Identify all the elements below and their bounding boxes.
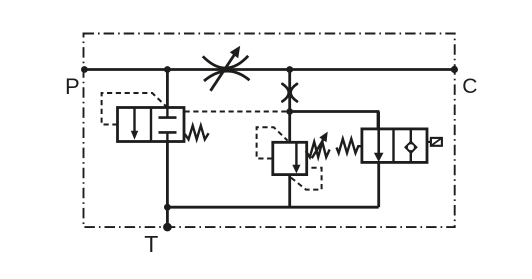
svg-text:C: C — [462, 75, 477, 98]
svg-text:P: P — [65, 74, 80, 99]
svg-text:T: T — [144, 231, 158, 257]
